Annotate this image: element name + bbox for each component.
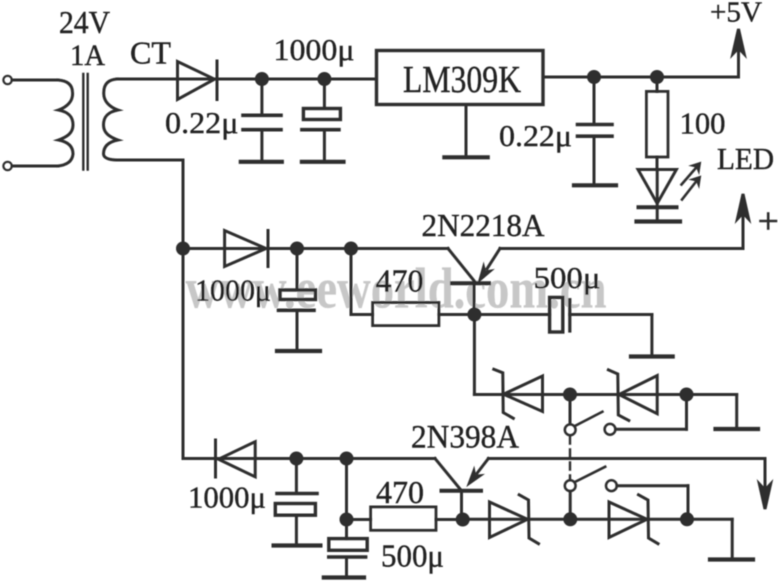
svg-text:2N398A: 2N398A: [411, 420, 519, 456]
svg-text:500μ: 500μ: [381, 538, 444, 574]
svg-text:24V: 24V: [59, 4, 110, 40]
svg-text:1A: 1A: [70, 39, 105, 72]
svg-text:LED: LED: [717, 141, 774, 176]
svg-text:1000μ: 1000μ: [195, 272, 271, 307]
svg-text:500μ: 500μ: [534, 260, 601, 295]
svg-text:LM309K: LM309K: [403, 59, 521, 101]
svg-text:+5V: +5V: [710, 0, 762, 29]
svg-text:100: 100: [680, 106, 726, 141]
svg-text:1000μ: 1000μ: [274, 32, 355, 67]
svg-text:470: 470: [376, 262, 424, 298]
svg-text:1000μ: 1000μ: [188, 479, 266, 514]
svg-text:0.22μ: 0.22μ: [499, 118, 572, 153]
svg-text:0.22μ: 0.22μ: [165, 105, 239, 140]
svg-text:CT: CT: [130, 34, 171, 70]
svg-text:470: 470: [376, 474, 424, 510]
svg-text:2N2218A: 2N2218A: [422, 207, 545, 243]
